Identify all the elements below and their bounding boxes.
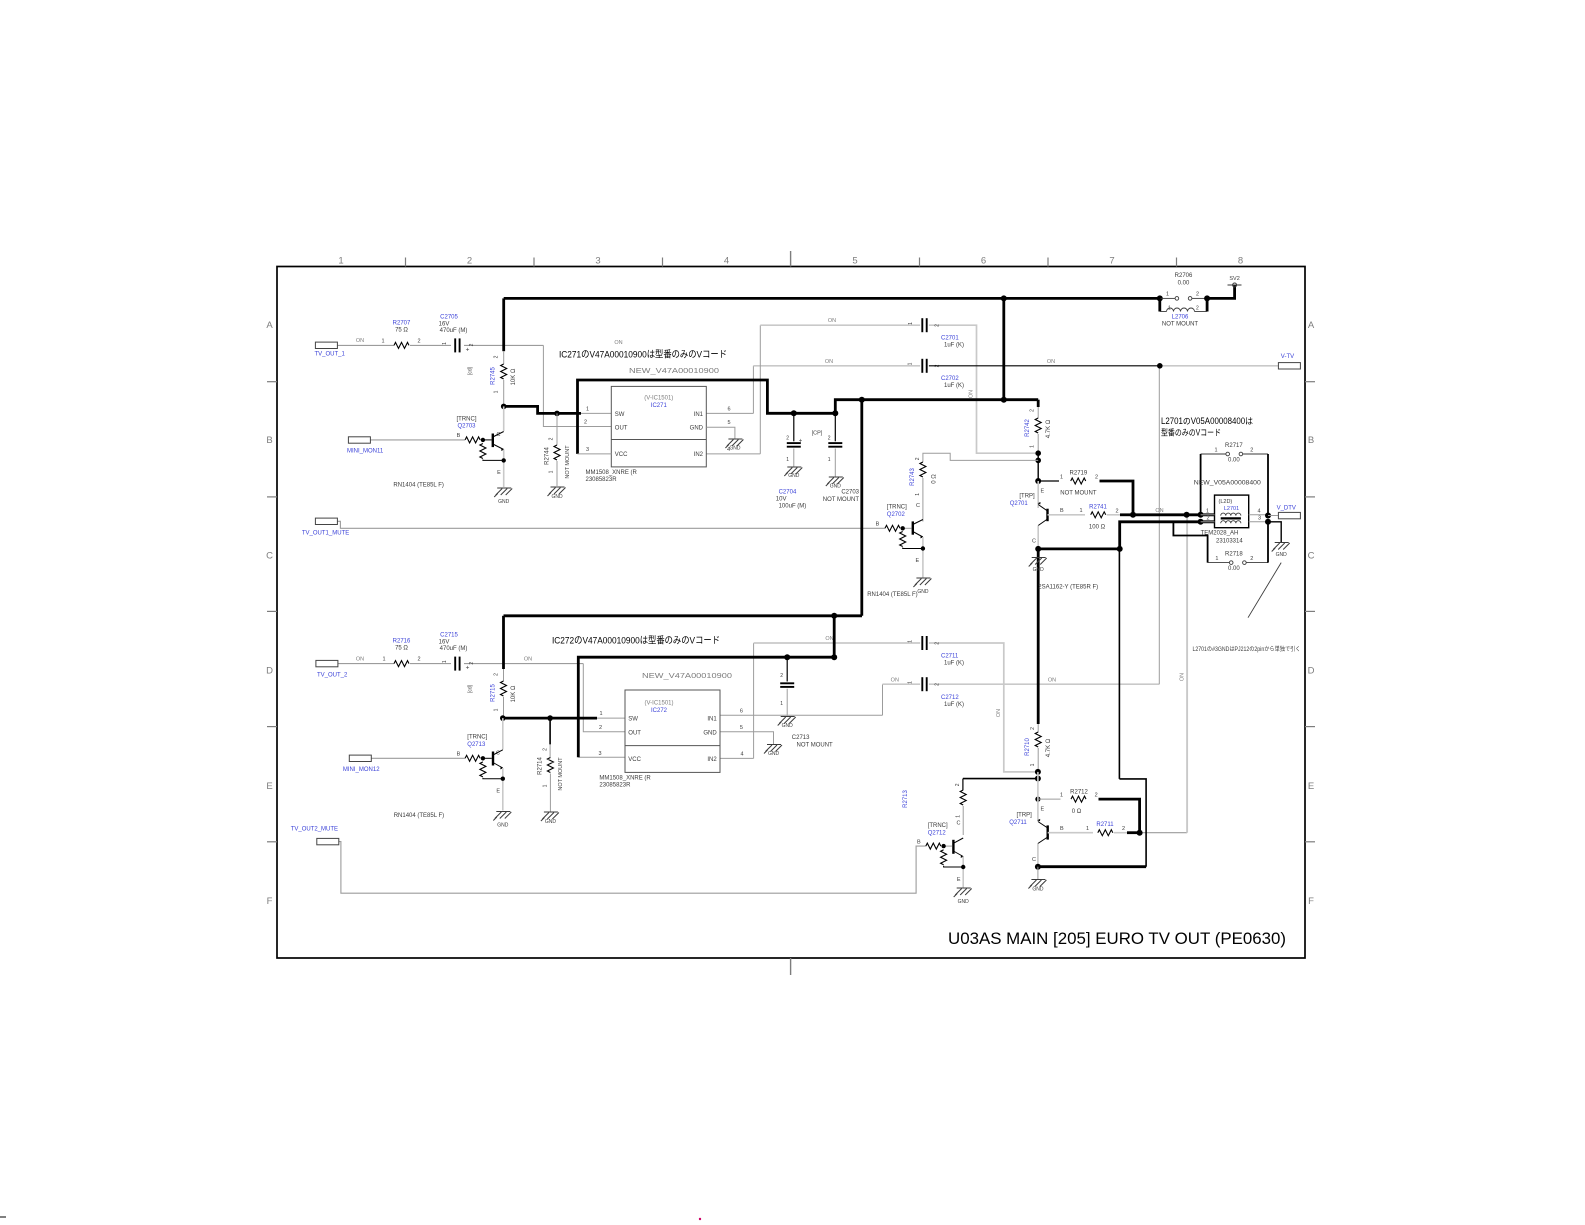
svg-text:5: 5 xyxy=(740,725,743,731)
wire Q2711 collector out xyxy=(1038,865,1146,868)
connector TV_OUT_1 xyxy=(315,342,337,348)
svg-text:2: 2 xyxy=(935,642,941,645)
svg-text:2: 2 xyxy=(1115,508,1118,514)
svg-text:2: 2 xyxy=(467,256,472,267)
svg-text:0.00: 0.00 xyxy=(1228,458,1240,464)
svg-text:4.7K Ω: 4.7K Ω xyxy=(1046,738,1052,757)
svg-text:1: 1 xyxy=(442,660,448,663)
svg-text:+: + xyxy=(466,347,470,354)
capacitor C2705 xyxy=(454,338,456,352)
svg-text:2: 2 xyxy=(494,673,500,676)
svg-text:1: 1 xyxy=(908,362,914,365)
svg-text:100 Ω: 100 Ω xyxy=(1089,525,1106,531)
svg-text:R2743: R2743 xyxy=(910,468,916,486)
resistor R2712 xyxy=(1038,798,1061,800)
svg-text:ON: ON xyxy=(356,656,364,662)
wire IN2-2 pin xyxy=(720,757,754,759)
svg-text:F: F xyxy=(267,896,273,907)
wire ON vertical xyxy=(1186,515,1188,833)
wire IC272 GND pin xyxy=(720,732,774,744)
capacitor C2711 xyxy=(921,636,923,650)
svg-text:IC272: IC272 xyxy=(651,708,668,714)
node C2713-tap xyxy=(784,654,790,660)
svg-text:ON: ON xyxy=(1047,359,1055,365)
inductor L2706 xyxy=(1158,298,1161,311)
resistor R2742 xyxy=(1037,400,1040,407)
node V-TV xyxy=(1157,363,1163,369)
svg-text:C: C xyxy=(1032,539,1036,545)
svg-text:1: 1 xyxy=(442,342,448,345)
svg-text:2: 2 xyxy=(1122,826,1125,832)
wire top supply bus xyxy=(504,297,1160,300)
wire bus drop to R2745 xyxy=(502,298,505,351)
wire TV_OUT2_MUTE to Q2712 xyxy=(339,842,926,894)
transistor Q2701 xyxy=(1037,481,1039,508)
ground Q2702 xyxy=(916,577,930,579)
resistor R2718 (jumper) xyxy=(1173,522,1207,563)
svg-text:NOT MOUNT: NOT MOUNT xyxy=(797,742,834,748)
svg-text:23085823R: 23085823R xyxy=(586,477,618,483)
svg-text:[TRP]: [TRP] xyxy=(1017,813,1033,819)
node VCC2-corner xyxy=(831,654,837,660)
svg-text:2: 2 xyxy=(935,683,941,686)
svg-text:E: E xyxy=(497,470,501,476)
svg-text:5: 5 xyxy=(852,256,857,267)
svg-text:[TRP]: [TRP] xyxy=(1019,494,1035,500)
svg-text:L2701の#3GNDはPJ212の2pinから単独で引く: L2701の#3GNDはPJ212の2pinから単独で引く xyxy=(1193,645,1301,653)
svg-text:NOT MOUNT: NOT MOUNT xyxy=(558,757,564,791)
svg-text:B: B xyxy=(876,522,880,528)
wire IN2-2 riser xyxy=(753,643,755,758)
svg-text:R2706: R2706 xyxy=(1175,273,1193,279)
svg-text:L2706: L2706 xyxy=(1172,315,1189,321)
svg-text:NEW_V47A00010900: NEW_V47A00010900 xyxy=(629,366,719,375)
svg-text:2: 2 xyxy=(1250,447,1253,453)
svg-text:R2711: R2711 xyxy=(1096,822,1114,828)
svg-text:0.00: 0.00 xyxy=(1228,566,1240,572)
ic IC271 box xyxy=(611,386,706,467)
svg-text:R2713: R2713 xyxy=(903,790,909,808)
wire C2711 net left xyxy=(754,642,921,644)
node R2711-out xyxy=(1137,830,1143,836)
wire bbus drop xyxy=(833,616,836,657)
svg-text:GND: GND xyxy=(703,731,717,737)
svg-text:2: 2 xyxy=(915,457,921,460)
svg-text:[TRNC]: [TRNC] xyxy=(887,505,907,511)
svg-text:2: 2 xyxy=(935,324,941,327)
svg-text:1: 1 xyxy=(543,784,549,787)
svg-text:C2705: C2705 xyxy=(440,315,458,321)
ground IC272 pin5 xyxy=(767,744,781,746)
ic IC272 box xyxy=(625,690,720,772)
svg-text:GND: GND xyxy=(788,473,800,479)
svg-text:V-TV: V-TV xyxy=(1281,354,1294,360)
wire IN1 riser xyxy=(752,366,754,414)
wire IN2 pin xyxy=(706,453,760,455)
resistor R2716 xyxy=(394,661,409,667)
svg-text:2: 2 xyxy=(417,657,420,663)
wire inter-section vertical xyxy=(860,400,863,616)
wire R2745 to IC271 SW xyxy=(504,406,581,413)
svg-text:GND: GND xyxy=(498,499,510,505)
transistor Q2711 xyxy=(1037,772,1039,821)
svg-text:C2701: C2701 xyxy=(941,336,959,342)
svg-text:2: 2 xyxy=(1196,306,1199,312)
svg-text:ON: ON xyxy=(614,340,622,346)
svg-text:1uF (K): 1uF (K) xyxy=(944,661,964,667)
svg-text:2: 2 xyxy=(1196,292,1199,298)
svg-text:C: C xyxy=(1032,857,1036,863)
svg-text:ON: ON xyxy=(891,678,899,684)
svg-text:1: 1 xyxy=(1030,445,1036,448)
svg-text:C: C xyxy=(266,550,273,561)
svg-text:GND: GND xyxy=(551,494,563,500)
svg-text:GND: GND xyxy=(690,425,704,431)
svg-text:[TRNC]: [TRNC] xyxy=(928,823,948,829)
svg-text:ON: ON xyxy=(1048,678,1056,684)
svg-text:3: 3 xyxy=(586,447,589,453)
svg-text:GND: GND xyxy=(1032,887,1044,893)
svg-text:23085823R: 23085823R xyxy=(599,783,631,789)
wire OUT net xyxy=(543,345,611,426)
svg-text:3: 3 xyxy=(1258,516,1261,522)
wire MINI_MON12 to Q2713 base xyxy=(371,757,465,759)
svg-text:10K Ω: 10K Ω xyxy=(511,685,517,702)
svg-text:GND: GND xyxy=(497,823,509,829)
svg-text:1: 1 xyxy=(908,640,914,643)
svg-text:3: 3 xyxy=(595,256,600,267)
svg-text:2: 2 xyxy=(1206,516,1209,522)
connector MINI_MON11 xyxy=(348,437,370,443)
node L2701-4 xyxy=(1265,513,1271,519)
svg-text:ON: ON xyxy=(996,709,1002,717)
svg-text:2: 2 xyxy=(549,437,555,440)
node Q2701-C xyxy=(1035,546,1041,552)
wire pin2-to-R2713 xyxy=(1119,779,1146,867)
svg-text:1: 1 xyxy=(599,711,602,717)
resistor R2744 (not mount) xyxy=(556,413,558,445)
svg-text:4: 4 xyxy=(1257,508,1260,514)
svg-text:+: + xyxy=(466,665,470,672)
svg-text:1: 1 xyxy=(1030,763,1036,766)
wire L2701 pin2 net xyxy=(1120,522,1215,549)
wire bottom bus xyxy=(504,614,863,617)
svg-text:MM1508_XNRE (R: MM1508_XNRE (R xyxy=(599,776,651,782)
connector TV_OUT1_MUTE xyxy=(315,518,337,524)
wire L2701 pin1 net xyxy=(1133,513,1215,516)
node bus-C xyxy=(1204,295,1210,301)
svg-text:2: 2 xyxy=(786,436,789,442)
svg-text:2: 2 xyxy=(469,662,475,665)
wire Q2711 base xyxy=(1048,832,1093,834)
svg-text:NOT MOUNT: NOT MOUNT xyxy=(823,497,860,503)
svg-text:2: 2 xyxy=(543,748,549,751)
svg-text:2: 2 xyxy=(584,420,587,426)
svg-text:R2719: R2719 xyxy=(1070,471,1088,477)
wire C2712 net right xyxy=(929,683,1159,685)
svg-text:GND: GND xyxy=(958,899,970,905)
svg-text:GND: GND xyxy=(545,819,557,825)
node Q2711-C xyxy=(1035,864,1041,870)
ground Q2713 xyxy=(496,811,510,813)
node bus-sect xyxy=(859,397,865,403)
wire VCC2 net xyxy=(578,756,625,758)
svg-text:NEW_V47A00010900: NEW_V47A00010900 xyxy=(642,671,732,680)
node CP-1 xyxy=(791,410,797,416)
wire IN2 riser xyxy=(759,325,761,454)
svg-text:NOT MOUNT: NOT MOUNT xyxy=(1060,491,1097,497)
svg-text:SW: SW xyxy=(615,412,625,418)
svg-text:6: 6 xyxy=(981,256,986,267)
svg-text:[cd]: [cd] xyxy=(468,684,474,693)
wire C2711 to Q2711 xyxy=(929,643,1038,772)
ground C2713 xyxy=(781,716,795,718)
svg-text:B: B xyxy=(1060,508,1064,514)
svg-text:C2715: C2715 xyxy=(440,633,458,639)
svg-text:1: 1 xyxy=(1060,793,1063,799)
svg-text:0.00: 0.00 xyxy=(1178,281,1190,287)
svg-text:2: 2 xyxy=(417,339,420,345)
svg-text:IN2: IN2 xyxy=(694,452,704,458)
node R2719-junction xyxy=(1035,478,1041,484)
svg-text:IC271のV47A00010900は型番のみのVコード: IC271のV47A00010900は型番のみのVコード xyxy=(559,349,727,361)
svg-text:1: 1 xyxy=(828,457,831,463)
svg-text:R2710: R2710 xyxy=(1025,738,1031,756)
wire bus to SV2 xyxy=(1207,285,1235,298)
svg-text:E: E xyxy=(1308,781,1314,792)
svg-text:ON: ON xyxy=(969,390,975,398)
svg-text:GND: GND xyxy=(768,751,780,757)
wire TV_OUT_2 to C2715 xyxy=(338,663,394,665)
svg-text:E: E xyxy=(266,781,272,792)
svg-text:B: B xyxy=(457,752,461,758)
wire bus step xyxy=(835,400,1038,414)
svg-text:NOT MOUNT: NOT MOUNT xyxy=(565,445,571,479)
wire IN1 pin xyxy=(706,412,753,414)
svg-text:2: 2 xyxy=(1250,556,1253,562)
svg-text:2: 2 xyxy=(1030,409,1036,412)
svg-text:OUT: OUT xyxy=(628,731,641,737)
svg-text:1: 1 xyxy=(908,322,914,325)
svg-text:1: 1 xyxy=(780,701,783,707)
svg-text:2: 2 xyxy=(494,355,500,358)
svg-text:R2745: R2745 xyxy=(491,367,497,385)
wire Q2701 to R2710 xyxy=(1037,549,1040,724)
svg-text:E: E xyxy=(916,558,920,564)
svg-text:NOT MOUNT: NOT MOUNT xyxy=(1162,322,1199,328)
wire C2701 to R2742 xyxy=(929,325,1038,453)
capacitor C2715 xyxy=(454,657,456,671)
svg-text:1: 1 xyxy=(1166,292,1169,298)
svg-text:GND: GND xyxy=(830,484,842,490)
svg-text:RN1404 (TE85L F): RN1404 (TE85L F) xyxy=(394,813,444,819)
svg-text:RN1404 (TE85L F): RN1404 (TE85L F) xyxy=(393,483,443,489)
connector V_DTV xyxy=(1268,515,1278,517)
wire R2742 to R2719 xyxy=(1037,453,1039,481)
svg-text:2SA1162-Y (TE85R F): 2SA1162-Y (TE85R F) xyxy=(1038,585,1098,591)
svg-text:1: 1 xyxy=(1060,474,1063,480)
transistor Q2703 xyxy=(503,406,505,431)
svg-text:Q2712: Q2712 xyxy=(928,830,947,836)
svg-text:2: 2 xyxy=(469,343,475,346)
svg-text:TV_OUT1_MUTE: TV_OUT1_MUTE xyxy=(302,531,349,537)
wire C2712 net left xyxy=(883,683,921,685)
node collector-right xyxy=(1117,546,1123,552)
svg-text:8: 8 xyxy=(1238,256,1243,267)
wire L2701 pin3 to gnd xyxy=(1268,522,1281,542)
svg-text:2: 2 xyxy=(955,783,961,786)
node R2742-R2743 xyxy=(1035,458,1041,464)
svg-text:IN2: IN2 xyxy=(707,757,717,763)
svg-text:E: E xyxy=(957,877,961,883)
svg-text:D: D xyxy=(1308,666,1315,677)
wire TV_OUT_1 to C2705 xyxy=(337,344,394,346)
wire C2701 net left xyxy=(760,324,920,326)
capacitor C2702 xyxy=(921,359,923,373)
svg-text:100uF (M): 100uF (M) xyxy=(779,504,807,510)
node SW-R2744 xyxy=(554,411,560,417)
node Q2711-E3 xyxy=(1035,797,1040,802)
wire MINI_MON11 to Q2703 base xyxy=(370,439,465,441)
svg-text:1: 1 xyxy=(338,256,343,267)
svg-text:A: A xyxy=(1308,320,1315,331)
svg-text:MINI_MON12: MINI_MON12 xyxy=(343,767,380,773)
svg-text:型番のみのVコード: 型番のみのVコード xyxy=(1161,427,1221,438)
ground IC271 pin5 xyxy=(728,438,742,440)
resistor R2711 xyxy=(1098,830,1113,836)
node R2742-C2701 xyxy=(1035,450,1041,456)
capacitor C2704 xyxy=(793,413,795,441)
svg-text:0 Ω: 0 Ω xyxy=(1072,809,1082,815)
connector V-TV xyxy=(1278,363,1300,369)
annotation arrow xyxy=(1248,563,1281,618)
ground R2714 xyxy=(544,811,558,813)
svg-text:SW: SW xyxy=(628,716,638,722)
svg-text:ON: ON xyxy=(828,318,836,324)
capacitor C2703 (not mount) xyxy=(834,413,836,441)
svg-text:B: B xyxy=(266,435,272,446)
node L2701-3 xyxy=(1265,519,1271,525)
node CP-2 xyxy=(832,410,838,416)
svg-text:Q2703: Q2703 xyxy=(457,424,476,430)
resistor R2707 xyxy=(394,342,409,348)
node Q2711-E1 xyxy=(1035,769,1041,775)
svg-text:7: 7 xyxy=(1109,256,1114,267)
svg-text:IN1: IN1 xyxy=(707,716,717,722)
svg-text:V_DTV: V_DTV xyxy=(1277,506,1296,512)
svg-text:23103314: 23103314 xyxy=(1216,539,1243,545)
svg-text:E: E xyxy=(1041,807,1045,813)
wire VCC net xyxy=(578,380,836,454)
svg-text:6: 6 xyxy=(740,708,743,714)
svg-text:1: 1 xyxy=(956,815,962,818)
svg-text:B: B xyxy=(457,433,461,439)
svg-text:R2714: R2714 xyxy=(538,757,544,775)
svg-text:[TRNC]: [TRNC] xyxy=(467,735,487,741)
svg-text:1uF (K): 1uF (K) xyxy=(944,383,964,389)
svg-text:C2711: C2711 xyxy=(941,654,959,660)
svg-text:1: 1 xyxy=(381,339,384,345)
resistor R2719 (not mount) xyxy=(1038,480,1059,482)
svg-text:470uF (M): 470uF (M) xyxy=(440,646,468,652)
svg-text:C2703: C2703 xyxy=(841,490,859,496)
svg-text:1: 1 xyxy=(908,681,914,684)
svg-text:(L2D): (L2D) xyxy=(1219,499,1233,505)
svg-text:R2717: R2717 xyxy=(1225,443,1243,449)
node pin1-ON xyxy=(1184,512,1190,518)
node bbus-A xyxy=(831,613,837,619)
svg-text:1: 1 xyxy=(549,470,555,473)
svg-text:GND: GND xyxy=(1276,552,1288,558)
svg-text:[CP]: [CP] xyxy=(812,431,823,437)
node R2745-out xyxy=(501,404,507,410)
wire R2715 to IC272 SW xyxy=(503,717,597,720)
svg-text:Q2711: Q2711 xyxy=(1009,820,1027,826)
wire R2711 to ON net xyxy=(1140,832,1188,834)
svg-text:0 Ω: 0 Ω xyxy=(932,474,938,484)
svg-text:4.7K Ω: 4.7K Ω xyxy=(1046,419,1052,438)
svg-text:1: 1 xyxy=(494,708,500,711)
svg-text:TV_OUT2_MUTE: TV_OUT2_MUTE xyxy=(291,827,338,833)
svg-text:2: 2 xyxy=(599,725,602,731)
svg-text:R2712: R2712 xyxy=(1070,789,1088,795)
svg-text:VCC: VCC xyxy=(615,452,628,458)
ground C2703 xyxy=(829,476,843,478)
wire IC271 GND pin xyxy=(706,427,735,438)
svg-text:GND: GND xyxy=(782,723,794,729)
svg-text:1uF (K): 1uF (K) xyxy=(944,343,964,349)
svg-text:75 Ω: 75 Ω xyxy=(395,328,408,334)
svg-text:6: 6 xyxy=(727,407,730,413)
svg-text:R2741: R2741 xyxy=(1089,504,1107,510)
svg-text:1uF (K): 1uF (K) xyxy=(944,702,964,708)
svg-text:R2715: R2715 xyxy=(491,684,497,702)
svg-text:R2718: R2718 xyxy=(1225,552,1243,558)
svg-text:Q2702: Q2702 xyxy=(887,512,906,518)
svg-text:B: B xyxy=(917,839,921,845)
svg-text:3: 3 xyxy=(598,751,601,757)
svg-text:R2716: R2716 xyxy=(393,639,411,645)
svg-text:2: 2 xyxy=(1095,793,1098,799)
svg-text:75 Ω: 75 Ω xyxy=(395,646,408,652)
node Q2711-E2 xyxy=(1035,776,1041,782)
power SV2 xyxy=(1228,284,1242,286)
svg-text:B: B xyxy=(1060,826,1064,832)
svg-text:[TRNC]: [TRNC] xyxy=(457,417,477,423)
svg-text:(V-IC1501): (V-IC1501) xyxy=(644,396,673,402)
node pin2-R2717 xyxy=(1198,519,1204,525)
svg-text:2: 2 xyxy=(1095,474,1098,480)
svg-text:1: 1 xyxy=(1214,447,1217,453)
svg-text:NEW_V05A00008400: NEW_V05A00008400 xyxy=(1194,480,1261,487)
ground C2704 xyxy=(787,466,801,468)
svg-text:[cd]: [cd] xyxy=(468,366,474,375)
ground R2744 xyxy=(551,486,565,488)
svg-text:C2704: C2704 xyxy=(779,490,797,496)
svg-text:C2702: C2702 xyxy=(941,376,959,382)
ground Q2701 xyxy=(1032,557,1046,559)
svg-text:10V: 10V xyxy=(776,497,787,503)
wire Q2701 collector bus xyxy=(1038,548,1120,551)
svg-text:5: 5 xyxy=(727,420,730,426)
svg-text:TV_OUT_1: TV_OUT_1 xyxy=(315,352,346,358)
svg-text:R2707: R2707 xyxy=(393,321,411,327)
svg-text:C: C xyxy=(916,503,920,509)
svg-text:10K Ω: 10K Ω xyxy=(511,368,517,385)
svg-text:1: 1 xyxy=(1086,826,1089,832)
svg-text:Q2701: Q2701 xyxy=(1010,501,1029,507)
svg-text:2: 2 xyxy=(1030,727,1036,730)
